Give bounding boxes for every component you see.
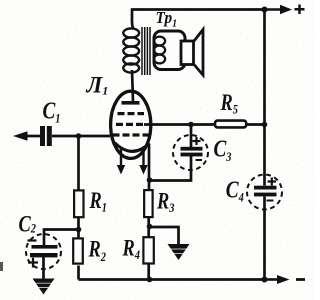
capacitor C2 (electrolytic) <box>26 234 61 269</box>
transformer secondary winding <box>154 37 165 64</box>
svg-text:R1: R1 <box>89 187 107 215</box>
arrow - terminal <box>265 275 306 284</box>
capacitor C3 (electrolytic) <box>173 135 208 170</box>
resistor R1 <box>74 190 83 217</box>
tube grid row 2 (screen) <box>116 123 143 126</box>
wire R1 bottom to junction <box>77 217 80 239</box>
svg-text:C3: C3 <box>214 136 232 165</box>
tube anode plate <box>122 101 140 105</box>
node cathode junction <box>147 177 153 183</box>
capacitor C4 (electrolytic) <box>247 175 282 210</box>
tube Л1 envelope <box>111 91 151 158</box>
transformer Тр1 primary winding <box>123 28 139 72</box>
resistor R4 <box>143 237 153 263</box>
wire C2 to ground <box>42 257 45 279</box>
arrow grid input left <box>13 131 28 140</box>
svg-text:C4: C4 <box>226 177 244 205</box>
wire grid input (C1 line) <box>26 135 40 138</box>
node R3/R4/ground junction <box>147 224 153 230</box>
tube filament arrow left <box>117 149 125 175</box>
svg-text:Л1: Л1 <box>86 73 109 98</box>
wire C1 to tube grid <box>52 135 110 138</box>
wire junction to ground 2 <box>150 227 179 245</box>
transformer secondary frame <box>154 31 185 70</box>
capacitor C1 <box>40 126 52 146</box>
node grid/C1 junction <box>76 133 82 139</box>
wire R5 to right rail <box>245 123 265 126</box>
node bottom-right junction <box>262 277 268 283</box>
tube filament arrow right <box>139 149 147 175</box>
tube cathode arc <box>115 143 150 152</box>
svg-text:C2: C2 <box>19 210 37 237</box>
node R4 bottom rail junction <box>147 277 153 283</box>
wire grid junction down to R1 <box>77 136 80 191</box>
wire C3 top lead <box>190 125 193 148</box>
svg-text:R5: R5 <box>220 89 238 117</box>
ground (cathode tap) <box>168 244 190 260</box>
svg-text:R2: R2 <box>88 236 106 265</box>
speaker horn <box>194 30 203 76</box>
wire anode lead from primary <box>132 70 133 101</box>
tube grid row 3 (control) <box>113 133 150 136</box>
scan smudge left edge <box>0 262 3 271</box>
wire C3 bottom lead <box>150 156 192 181</box>
transformer core <box>142 27 150 75</box>
wire right rail upper <box>263 10 266 186</box>
resistor R5 <box>215 121 246 128</box>
node screen/R5 junction <box>188 122 194 128</box>
speaker voice coil box <box>181 41 194 65</box>
wire bottom rail <box>79 278 265 281</box>
wire right rail lower <box>263 197 266 280</box>
node R5 right rail junction <box>262 122 268 128</box>
arrow + terminal <box>265 5 305 15</box>
wire top rail <box>131 8 265 11</box>
svg-text:C1: C1 <box>43 98 61 126</box>
svg-text:Тр1: Тр1 <box>156 10 178 30</box>
svg-text:R3: R3 <box>156 188 174 216</box>
wire R2 bottom to bottom rail <box>77 266 80 280</box>
node R1/R2/C2 junction <box>76 227 82 233</box>
ground (C2) <box>33 279 55 295</box>
wire R4 bottom to bottom rail <box>147 264 150 280</box>
resistor R3 <box>144 190 152 217</box>
wire screen grid to R5 <box>144 123 216 126</box>
resistor R2 <box>73 238 83 263</box>
wire transformer primary top lead <box>132 9 134 30</box>
scan grain overlay <box>0 0 1 1</box>
node top-right junction <box>262 7 268 13</box>
svg-text:R4: R4 <box>122 235 140 263</box>
tube grid row 1 <box>118 112 145 115</box>
wire R3 bottom to junction <box>147 217 150 238</box>
wire junction to C2 <box>44 230 79 246</box>
wire cathode lead <box>148 144 151 191</box>
